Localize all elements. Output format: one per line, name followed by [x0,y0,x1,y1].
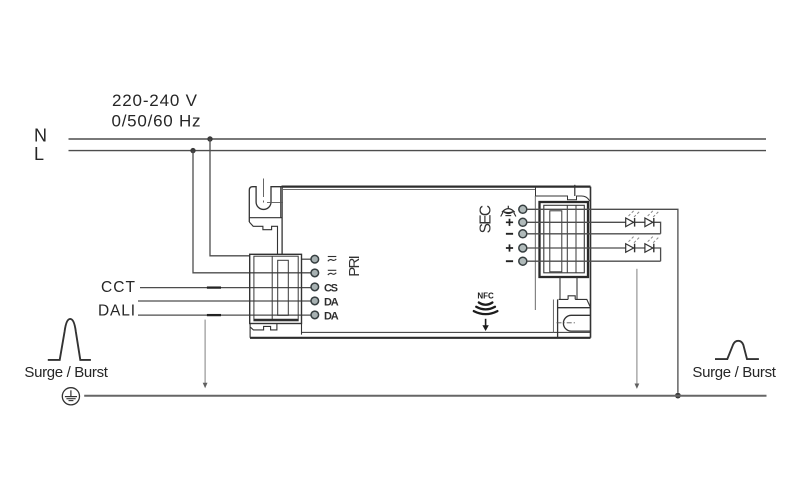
terminal circle PRI DA upper [311,297,319,305]
svg-text:DA: DA [324,310,339,322]
tab top-left center mark [264,179,284,203]
terminal circle SEC 3 [519,230,527,238]
mounting tab top-left [249,187,282,255]
symbol surge pulse right [715,341,759,359]
arrow leakage left [204,320,206,384]
pri connector slot [278,260,289,315]
wire row2 through connector [250,272,311,274]
body top-right lid step [536,185,591,202]
sec connector stem [560,277,577,300]
svg-text:0/50/60 Hz: 0/50/60 Hz [112,112,201,131]
NFC logo [474,292,498,332]
sec connector block outer bold [540,202,589,277]
tab bottom-right center mark [557,322,577,324]
junction dot on L line [190,148,195,153]
sec connector slot [550,211,562,272]
pri connector divider [271,256,273,321]
svg-text:Surge / Burst: Surge / Burst [692,364,776,381]
LED D2 [645,210,660,227]
arrow leakage right [636,269,638,384]
mounting tab bottom-right [558,299,591,337]
pri connector block inner [254,256,298,321]
terminal circle SEC 5 [519,257,527,265]
svg-text:NFC: NFC [477,292,494,301]
svg-text:CCT: CCT [101,279,136,296]
svg-text:N: N [34,126,47,146]
wire CCT to CS terminal [140,287,311,289]
tab bottom-right seam [552,300,554,333]
terminal circle PRI 1 [311,255,319,263]
wire stub terminal 1 [302,258,312,260]
sec connector block inner [544,205,585,272]
svg-text:CS: CS [324,282,338,294]
wire thick mark on CCT wire [207,286,221,288]
svg-text:PRI: PRI [346,255,363,277]
svg-text:SEC: SEC [478,205,495,234]
label AC tilde 1 [328,257,337,262]
junction dot earth line [675,393,681,399]
terminal circle PRI 2 [311,269,319,277]
wire DALI to DA terminal upper [138,300,311,302]
label minus row3 [506,233,513,235]
label minus row5 [506,260,513,262]
svg-text:220-240 V: 220-240 V [112,91,198,110]
terminal circle PRI DA lower [311,311,319,319]
junction dot on N line [207,136,212,141]
terminal circle SEC 1 [519,205,527,213]
symbol dim output [501,206,516,217]
sec connector lid seam [534,196,536,310]
terminal circle PRI CS [311,283,319,291]
mounting tab bottom-right foot [559,296,591,308]
body left edge [281,187,283,255]
pri connector bottom band [254,319,298,321]
sec connector dividers [567,205,576,272]
svg-text:L: L [34,144,44,164]
pri connector foot [250,324,301,338]
wire L mains line [69,150,767,152]
svg-text:DA: DA [324,296,339,308]
body top edge [282,186,591,188]
terminal circle SEC 4 [519,244,527,252]
label plus row4 [506,244,513,251]
pri connector block outer [250,254,302,323]
svg-text:DALI: DALI [98,303,135,320]
label AC tilde 2 [328,270,337,275]
body bottom edge [250,337,591,339]
wire thick mark on lower DA wire [207,314,221,316]
wire DALI to DA terminal lower [138,314,311,316]
label plus row2 [506,219,513,226]
svg-text:Surge / Burst: Surge / Burst [24,364,108,381]
wire earth line [84,395,766,397]
LED D1 [626,210,641,227]
symbol surge pulse left [48,319,91,360]
wire L drop to terminal 2 [193,151,250,273]
wire LED string 1 [527,222,661,234]
LED D3 [626,235,641,252]
wire N mains line [69,138,767,140]
driver body outline [250,187,591,338]
wire LED string 2 [527,248,661,261]
wire SEC row1 to earth line [527,209,678,392]
body inner top seam [283,188,536,190]
earth symbol [62,388,79,405]
terminal circle SEC 2 [519,218,527,226]
body bottom inner seam [302,331,591,333]
LED D4 [645,235,660,252]
wire N drop to terminal 1 [210,139,250,256]
body right edge [590,187,592,338]
